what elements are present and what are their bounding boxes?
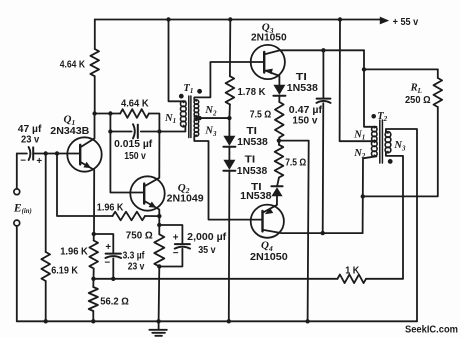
wire: feedback node to R7 [92,279,94,287]
transistor Q2 base bar [143,184,145,204]
svg-text:−: − [173,248,179,259]
svg-text:150 v: 150 v [124,151,146,162]
svg-text:56.2 Ω: 56.2 Ω [100,297,129,308]
wire: +55 V top supply rail [95,19,381,21]
transistor Q3 circle [251,45,285,79]
wire: R4 right to Q2 emitter node [145,215,159,217]
svg-text:TI: TI [296,72,307,83]
wire: N3 bottom to Q4 base [194,136,262,220]
transistor Q1 base bar [79,145,81,165]
diode D3 TI 1N538 [273,85,285,95]
resistor R5 750 ohm [154,234,164,266]
terminal: input bottom [14,220,20,226]
svg-text:6.19 K: 6.19 K [51,266,78,277]
wire: R1 bottom to rail [45,281,47,321]
junction: top rail / T1 N1 top [166,17,170,21]
phase dot T2 secondary [388,159,393,164]
junction: C5 branch node [157,223,161,227]
transistor Q2 collector lead [144,132,159,187]
svg-text:−: − [20,156,26,167]
junction: R7 rail node [91,319,95,323]
wire: top terminal riser [16,154,18,189]
power +55 V supply arrow [380,17,389,25]
wire: C3 top lead [322,50,324,97]
wire: Q4 collector riser to node B [362,196,364,233]
wire: mid node to R11 [278,141,280,145]
svg-text:4.64 K: 4.64 K [121,98,149,109]
wire: T1 tap to bias node [194,117,229,119]
capacitor C1 47 uf left plate (curved) [29,147,31,160]
transistor Q3 base bar [263,52,265,73]
svg-text:1N538: 1N538 [287,83,319,94]
capacitor C5 2000 uf top plate [175,243,190,245]
resistor R4 1.96 K (horizontal) [113,212,146,221]
svg-text:4.64 K: 4.64 K [60,60,85,71]
svg-text:1.78 K: 1.78 K [238,87,266,98]
capacitor C4 3.3 uf bottom plate (curved) [105,256,121,258]
wire: collector node to RC node [95,113,111,115]
wire: R3 right to N1 node [149,114,160,132]
svg-text:0.47 µf: 0.47 µf [289,105,323,116]
junction: T1 secondary tap [197,116,201,120]
svg-text:35 v: 35 v [198,245,216,256]
wire: C2 node down to Q2 base [110,132,144,193]
resistor R10 7.5 ohm (upper) [275,102,284,138]
resistor R6 1.96 K (vertical) [89,241,98,269]
transistor Q1 collector lead [80,114,94,148]
transistor Q4 circle [251,205,284,238]
transformer T2 primary N2 winding [371,141,377,147]
wire: R2 bottom to Q1 collector node [94,76,96,113]
svg-text:1N538: 1N538 [240,191,272,202]
junction: mid chain rail node [305,319,309,323]
resistor R8 1 K [338,275,367,284]
resistor R2 4.64 K (vertical) [90,49,99,76]
junction: Q2 emitter node [157,214,161,218]
capacitor C3 0.47 uf top plate [317,98,331,100]
svg-text:2N1050: 2N1050 [250,252,288,263]
capacitor C2 0.015 uf left plate (curved) [133,124,135,138]
wire: emitter node down to R5 [158,225,160,234]
svg-text:+ 55 v: + 55 v [393,17,419,28]
wire: R6 bottom to feedback node [93,269,95,279]
capacitor C1 47 uf right plate [32,147,34,159]
phase dot T1 secondary [197,89,202,94]
wire: R9 bottom to bias node [228,104,231,118]
resistor R1 6.19 K [41,252,50,281]
capacitor C4 3.3 uf top plate [106,253,121,255]
svg-text:150 v: 150 v [292,116,318,127]
ground [158,321,160,329]
junction: C3 bottom / Q4 emitter wire [321,231,325,235]
wire: N3 bottom to 1K riser [386,153,403,279]
wire: C3 bottom lead [322,103,325,233]
junction: top rail / T2 tap riser [338,17,342,21]
wire: input to C1 [17,153,27,155]
svg-text:+: + [105,242,111,253]
wire: base node down to R1 [45,154,47,253]
wire: D1 to D2 [228,147,230,159]
capacitor C3 0.47 uf bottom plate (curved) [316,101,330,103]
wire: N3 top to rail riser [386,129,417,321]
wire: 1 K right to T2 N3 bottom riser [366,278,403,280]
transformer T1 core [188,96,190,138]
svg-text:7.5 Ω: 7.5 Ω [285,157,306,168]
phase dot T2 primary [371,114,376,119]
wire: C5 bottom lead [159,249,182,267]
resistor R9 1.78 K [226,76,235,104]
wire: mid node to ground riser [279,141,309,322]
transformer T1 secondary N2 winding [194,100,199,105]
transistor Q2 emitter lead [144,201,159,216]
wire: top rail to R2 top [94,20,96,50]
svg-text:2N1050: 2N1050 [251,32,287,43]
wire: rail down to T1 N1 top [169,20,186,102]
junction: output mid node [277,138,281,142]
junction: bias chain rail node [227,319,231,323]
wire: Q1 emitter node to R6 [93,234,95,241]
svg-text:+: + [36,156,42,167]
svg-text:47 µf: 47 µf [18,124,42,135]
svg-text:250 Ω: 250 Ω [405,95,431,106]
junction: top rail / R9 [228,17,232,21]
junction: R1 rail node [44,319,48,323]
transformer T1 secondary N3 winding [194,119,199,124]
resistor R7 56.2 ohm [89,287,98,311]
transformer T2 core [379,120,381,163]
transformer T1 primary N1 winding [180,101,186,107]
svg-text:0.015 µf: 0.015 µf [114,139,153,150]
wire: R11 to D4 [277,178,279,187]
wire: base node down to R4 level [57,154,113,217]
wire: RL top feed [364,68,438,70]
svg-text:750 Ω: 750 Ω [126,230,153,241]
transistor Q4 base bar [261,211,263,232]
transistor Q1 emitter arrow [83,162,91,168]
wire: D4 to Q4 emitter [276,196,278,205]
svg-text:7.5 Ω: 7.5 Ω [250,110,272,121]
transformer T2 primary N1 winding [372,127,377,132]
transistor Q2 circle [130,176,164,210]
wire: RL top stub [437,69,439,78]
junction: ground rail node [156,319,160,323]
svg-text:2N343B: 2N343B [50,126,89,137]
transistor Q3 collector lead [264,50,364,54]
svg-text:1.96 K: 1.96 K [97,202,124,213]
svg-text:2,000 µf: 2,000 µf [187,232,227,243]
junction: base node / 6.19K top [44,151,48,155]
wire: RC left node down to cap C2 left [109,114,111,132]
wire: D3 to R10 [278,96,280,102]
wire: R5 bottom to ground rail [158,267,161,322]
resistor R11 7.5 ohm (lower) [275,145,284,178]
transformer T2 secondary N3 winding [385,132,391,138]
wire: C1 to Q1 base [33,153,80,155]
svg-text:TI: TI [245,155,256,166]
wire: N1 bottom to node [159,127,185,132]
capacitor C5 2000 uf bottom plate (curved) [175,247,190,249]
junction: RC left node [108,111,112,115]
transistor Q4 collector lead [263,230,363,233]
wire: emitter node to C5 branch [158,216,160,225]
diode D4 TI 1N538 [271,187,282,196]
wire: bias node to D1 [228,118,230,136]
svg-text:SeekIC.com: SeekIC.com [405,325,458,336]
diode D1 TI 1N538 [223,136,235,146]
resistor R3 4.64 K (horizontal) [120,109,149,118]
terminal: input top [14,189,20,195]
transistor Q4 emitter lead [263,205,277,213]
resistor RL 250 ohm [434,78,443,107]
wire: C2 right lead [141,131,160,133]
transistor Q3 emitter lead [264,70,279,84]
svg-text:1N538: 1N538 [237,137,268,148]
junction: bias chain node [227,116,231,120]
svg-text:23 v: 23 v [21,135,40,146]
svg-text:3.3 µf: 3.3 µf [123,250,145,261]
transistor Q1 emitter lead [80,162,94,234]
junction: base node / feedback branch [55,151,59,155]
wire: R10 to mid node [278,138,280,141]
wire: rail down to T2 centre tap [340,20,377,142]
wire: C4 bottom lead [112,258,114,279]
wire: C5 top lead [159,225,182,243]
wire: RL bottom to node B [363,107,438,196]
svg-text:2N1049: 2N1049 [167,193,205,204]
junction: Q1 emitter node [92,232,96,236]
svg-text:1.96 K: 1.96 K [60,247,88,258]
junction: T1 N1 bottom node [157,129,161,133]
wire: feedback run to 1 K resistor [94,278,338,280]
transistor Q2 emitter arrow [149,202,157,208]
svg-text:+: + [173,233,179,244]
svg-text:−: − [104,258,110,269]
wire: rail down to R9 [229,20,231,77]
wire: N2 top to Q3 base [194,62,264,100]
wire: RC node to R3 left [110,113,120,115]
junction: C2 left node [108,129,112,133]
svg-text:1 K: 1 K [345,266,359,277]
junction: C4 bottom node [111,277,115,281]
wire: Q3 collector to T2 N1 top [364,50,376,127]
junction: Q1 collector node [92,111,96,115]
phase dot T1 primary [179,94,184,99]
wire: common bottom rail [17,320,417,322]
junction: Q3 collector / C3 top [321,48,325,52]
wire: D2 to common rail [228,171,231,321]
wire: R7 bottom to rail [92,311,94,321]
junction: node B (N2 bottom / RL / Q4) [361,194,365,198]
wire: emitter node to C4 top [94,234,114,253]
svg-text:23 v: 23 v [128,261,145,272]
diode D2 TI 1N538 [223,160,235,170]
wire: T2 N2 bottom to node B [363,156,377,196]
wire: C2 left lead [110,131,131,133]
transistor Q1 circle [67,137,101,171]
junction: RL top node [362,67,366,71]
junction: R5 bottom node [157,264,161,268]
wire: bottom terminal to common rail [16,226,18,321]
svg-text:1N538: 1N538 [237,166,268,177]
transistor Q4 emitter arrow [265,208,273,214]
transistor Q3 emitter arrow [266,69,273,75]
svg-text:TI: TI [246,126,257,137]
capacitor C2 0.015 uf right plate [137,125,139,138]
junction: feedback node [91,277,95,281]
